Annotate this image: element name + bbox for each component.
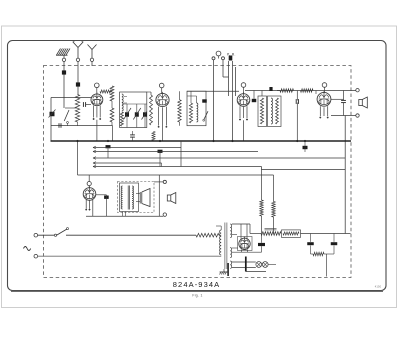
capacitor C11 xyxy=(130,131,135,141)
tube B5 legs xyxy=(86,200,93,216)
tuning gang box xyxy=(120,92,147,128)
wire antenna feed A2 xyxy=(91,62,93,67)
resistor R6 xyxy=(189,91,192,123)
wire mains L xyxy=(38,234,54,236)
wire column mid xyxy=(213,60,215,141)
wire mid rail 2 xyxy=(78,141,274,175)
tube B1 legs xyxy=(93,106,101,120)
dial lamp LA1 xyxy=(256,262,262,268)
capacitor C10 xyxy=(106,145,111,158)
capacitor C12 xyxy=(158,150,163,167)
svg-text:Fig. 1: Fig. 1 xyxy=(192,294,202,298)
wire top rail right xyxy=(277,90,356,92)
resistor R9 xyxy=(280,89,294,92)
terminal mains N xyxy=(34,254,38,258)
wire tube B3 down xyxy=(243,120,245,141)
IF transformer box 1 xyxy=(258,96,267,127)
resistor R11 xyxy=(152,132,155,141)
switch SW1 xyxy=(64,108,77,126)
resistor R5 xyxy=(147,92,153,125)
wire AF bottom xyxy=(86,215,163,217)
capacitor C19 xyxy=(307,234,314,255)
resistor R8 xyxy=(276,98,279,124)
tube B2 xyxy=(156,92,169,107)
caption 824A-934A xyxy=(173,280,220,289)
oscillator coil L3 xyxy=(197,96,198,122)
tube B4 legs xyxy=(320,106,329,118)
diode det D1 xyxy=(49,110,56,118)
resistor R17 xyxy=(311,252,335,255)
wire top rail 2 xyxy=(93,90,160,92)
tube B5 xyxy=(83,186,96,200)
wire HT bus xyxy=(51,140,352,142)
shield bar xyxy=(245,257,247,272)
terminal mains L xyxy=(34,233,38,237)
resistor R2 xyxy=(75,95,79,127)
oscillator coil L2 xyxy=(122,94,127,111)
resistor R6a xyxy=(178,91,181,126)
wire top rail 3 xyxy=(187,90,239,92)
wire T2 tap low xyxy=(232,248,262,252)
wire IF top xyxy=(245,91,280,99)
tube B4 xyxy=(317,91,331,106)
wire mains L2 xyxy=(66,234,196,236)
variable capacitor C4b xyxy=(142,104,148,128)
wire R down xyxy=(223,60,229,96)
resistor R14 xyxy=(272,175,275,234)
antenna A2 xyxy=(88,45,97,59)
caption Fig 1 xyxy=(192,294,202,298)
terminal P xyxy=(212,57,215,60)
ground symbol xyxy=(56,49,70,59)
resistor R3 horiz xyxy=(100,90,112,93)
wire gang top xyxy=(122,103,147,105)
power transformer T2 xyxy=(216,223,232,270)
resistor R7 xyxy=(260,98,263,124)
rectifier box xyxy=(238,237,253,251)
wire pickup pair xyxy=(233,61,236,141)
capacitor C7 xyxy=(252,99,257,102)
output transformer box xyxy=(120,183,139,212)
wire rect out xyxy=(250,224,261,234)
capacitor C1 xyxy=(76,82,80,86)
junction blob IF xyxy=(269,87,272,91)
oscillator box xyxy=(187,91,206,126)
capacitor C20 xyxy=(331,234,338,255)
wire lamp out xyxy=(268,264,276,266)
resistor R16 box xyxy=(282,230,301,238)
svg-text:4150: 4150 xyxy=(375,285,382,289)
tube B3 legs xyxy=(239,106,247,120)
svg-text:824A-934A: 824A-934A xyxy=(173,280,220,289)
terminal A1 xyxy=(76,58,79,61)
heater line 4 xyxy=(93,162,162,167)
terminal E xyxy=(62,58,65,61)
terminal A2 xyxy=(90,58,93,61)
wire mid rail 1 xyxy=(93,141,345,170)
output transformer T1 xyxy=(121,186,133,217)
label P.R. xyxy=(227,53,236,57)
wire T2 tap mid xyxy=(232,234,237,236)
capacitor C9 xyxy=(341,91,346,116)
junction dots bus xyxy=(77,140,306,142)
wire tube B1 cathode down xyxy=(96,120,98,141)
capacitor C2 xyxy=(83,102,91,107)
resistor R16 xyxy=(283,232,351,235)
wire LS lower xyxy=(331,115,356,117)
fuse S1 xyxy=(62,70,66,74)
terminal R xyxy=(222,57,225,60)
grid cap B4 xyxy=(316,83,327,94)
output transformer enclosure xyxy=(118,182,155,213)
switch SW2 xyxy=(203,111,208,121)
heater line 2 xyxy=(93,150,258,153)
wire HT drop xyxy=(344,116,346,234)
grid cap B2 xyxy=(159,83,164,93)
grid cap B3 xyxy=(241,83,246,94)
capacitor C8 xyxy=(296,91,298,142)
heater line 1 xyxy=(93,146,181,149)
AC symbol xyxy=(24,247,31,251)
grid cap B1 xyxy=(95,83,100,94)
tube B1 xyxy=(91,92,103,105)
variable capacitor C3 xyxy=(124,104,132,128)
tube B2 legs xyxy=(158,107,167,128)
speaker LS2 xyxy=(167,193,176,204)
capacitor C14 xyxy=(229,56,233,61)
wire cluster right xyxy=(158,175,160,216)
wire rect anode taps xyxy=(232,224,250,239)
IF transformer box 2 xyxy=(268,96,282,127)
wire B4 anode xyxy=(331,98,344,100)
terminal AF+ xyxy=(163,180,166,183)
terminal LS+ xyxy=(356,89,359,92)
wire section1 bottom xyxy=(51,123,113,141)
capacitor C13 xyxy=(303,141,308,152)
wire mains N xyxy=(38,255,219,257)
variable capacitor C4 xyxy=(133,104,141,128)
terminal LS- xyxy=(356,114,359,117)
wire AF+ link xyxy=(154,181,163,183)
speaker cone internal xyxy=(136,189,150,207)
antenna A1 xyxy=(73,42,83,58)
ground T2 xyxy=(220,269,229,275)
speaker LS1 xyxy=(359,97,368,108)
tube B6 rectifier xyxy=(239,237,250,250)
resistor R4 xyxy=(110,86,114,126)
capacitor C17 xyxy=(96,195,109,217)
dashed chassis enclosure xyxy=(44,66,352,278)
capacitor C18 xyxy=(258,234,265,253)
capacitor C5 xyxy=(202,99,207,102)
wire bias down xyxy=(326,254,328,277)
dial lamp LA2 xyxy=(262,262,268,268)
core ground bar xyxy=(227,263,229,276)
wire top rail left xyxy=(51,97,92,99)
choke L5 xyxy=(261,228,281,235)
resistor R13 xyxy=(260,170,263,234)
resistor R15 xyxy=(196,233,219,237)
grid cap B5 xyxy=(87,175,91,188)
wire T2 lamp taps xyxy=(232,262,256,268)
wire B2 to osc box xyxy=(162,126,164,142)
resistor L2b xyxy=(120,112,123,126)
switch SW3 xyxy=(54,228,68,237)
terminal AF- xyxy=(163,213,166,216)
wire rect cathode xyxy=(242,250,248,253)
dial lamp circle xyxy=(216,51,221,58)
wire antenna feed E xyxy=(63,62,65,109)
resistor R10 xyxy=(301,89,314,92)
tube B3 xyxy=(237,92,250,106)
wire lamp bottom xyxy=(246,271,266,273)
heater line 3 xyxy=(93,157,345,160)
IF coil L4 xyxy=(271,98,273,124)
wire left column xyxy=(50,98,52,142)
wire antenna feed A1 xyxy=(77,62,79,95)
wire osc top xyxy=(187,95,197,97)
